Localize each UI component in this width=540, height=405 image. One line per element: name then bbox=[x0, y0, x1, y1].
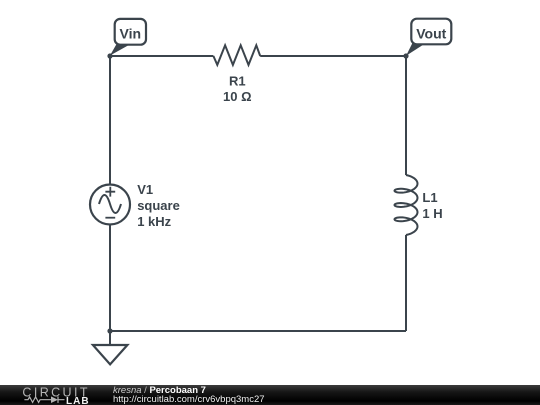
node tag Vin box bbox=[115, 19, 146, 45]
svg-text:Vout: Vout bbox=[416, 25, 446, 41]
svg-text:10 Ω: 10 Ω bbox=[223, 89, 252, 104]
node tag Vin tail bbox=[110, 44, 131, 56]
node tag Vout tail bbox=[406, 43, 425, 56]
wire left vertical lower (V1 to bottom node) bbox=[109, 225, 111, 331]
V1 sine wave glyph bbox=[99, 195, 121, 213]
svg-text:http://circuitlab.com/crv6vbpq: http://circuitlab.com/crv6vbpq3mc27 bbox=[113, 394, 265, 405]
V1 plus sign bbox=[105, 187, 115, 197]
wire left vertical upper (Vin node to V1) bbox=[109, 56, 111, 184]
svg-text:L1: L1 bbox=[422, 190, 437, 205]
wire right vertical lower (L1 to bottom wire) bbox=[405, 235, 407, 331]
ground symbol bbox=[93, 345, 128, 364]
svg-text:1 H: 1 H bbox=[422, 206, 442, 221]
svg-text:Vin: Vin bbox=[120, 26, 142, 42]
node dot bottom junction bbox=[107, 328, 112, 333]
wire ground stub bbox=[109, 331, 111, 345]
V1 minus sign bbox=[105, 217, 115, 219]
wire right vertical upper (Vout node to L1) bbox=[405, 56, 407, 175]
svg-text:1 kHz: 1 kHz bbox=[137, 214, 171, 229]
voltage source V1 circle bbox=[90, 185, 130, 225]
node dot Vout bbox=[403, 53, 408, 58]
svg-text:LAB: LAB bbox=[66, 396, 90, 405]
svg-text:square: square bbox=[137, 198, 180, 213]
resistor R1 zigzag bbox=[213, 45, 260, 65]
node tag Vout box bbox=[411, 19, 451, 45]
svg-text:R1: R1 bbox=[229, 73, 246, 88]
wire bottom horizontal bbox=[110, 330, 406, 332]
inductor L1 coil bbox=[395, 175, 418, 235]
node dot Vin bbox=[107, 53, 112, 58]
wire top-left horizontal (Vin node to R1) bbox=[110, 55, 213, 57]
CircuitLab logo zigzag + diode symbol bbox=[24, 397, 64, 403]
svg-text:V1: V1 bbox=[137, 182, 153, 197]
wire top-right horizontal (R1 to Vout node) bbox=[260, 55, 406, 57]
